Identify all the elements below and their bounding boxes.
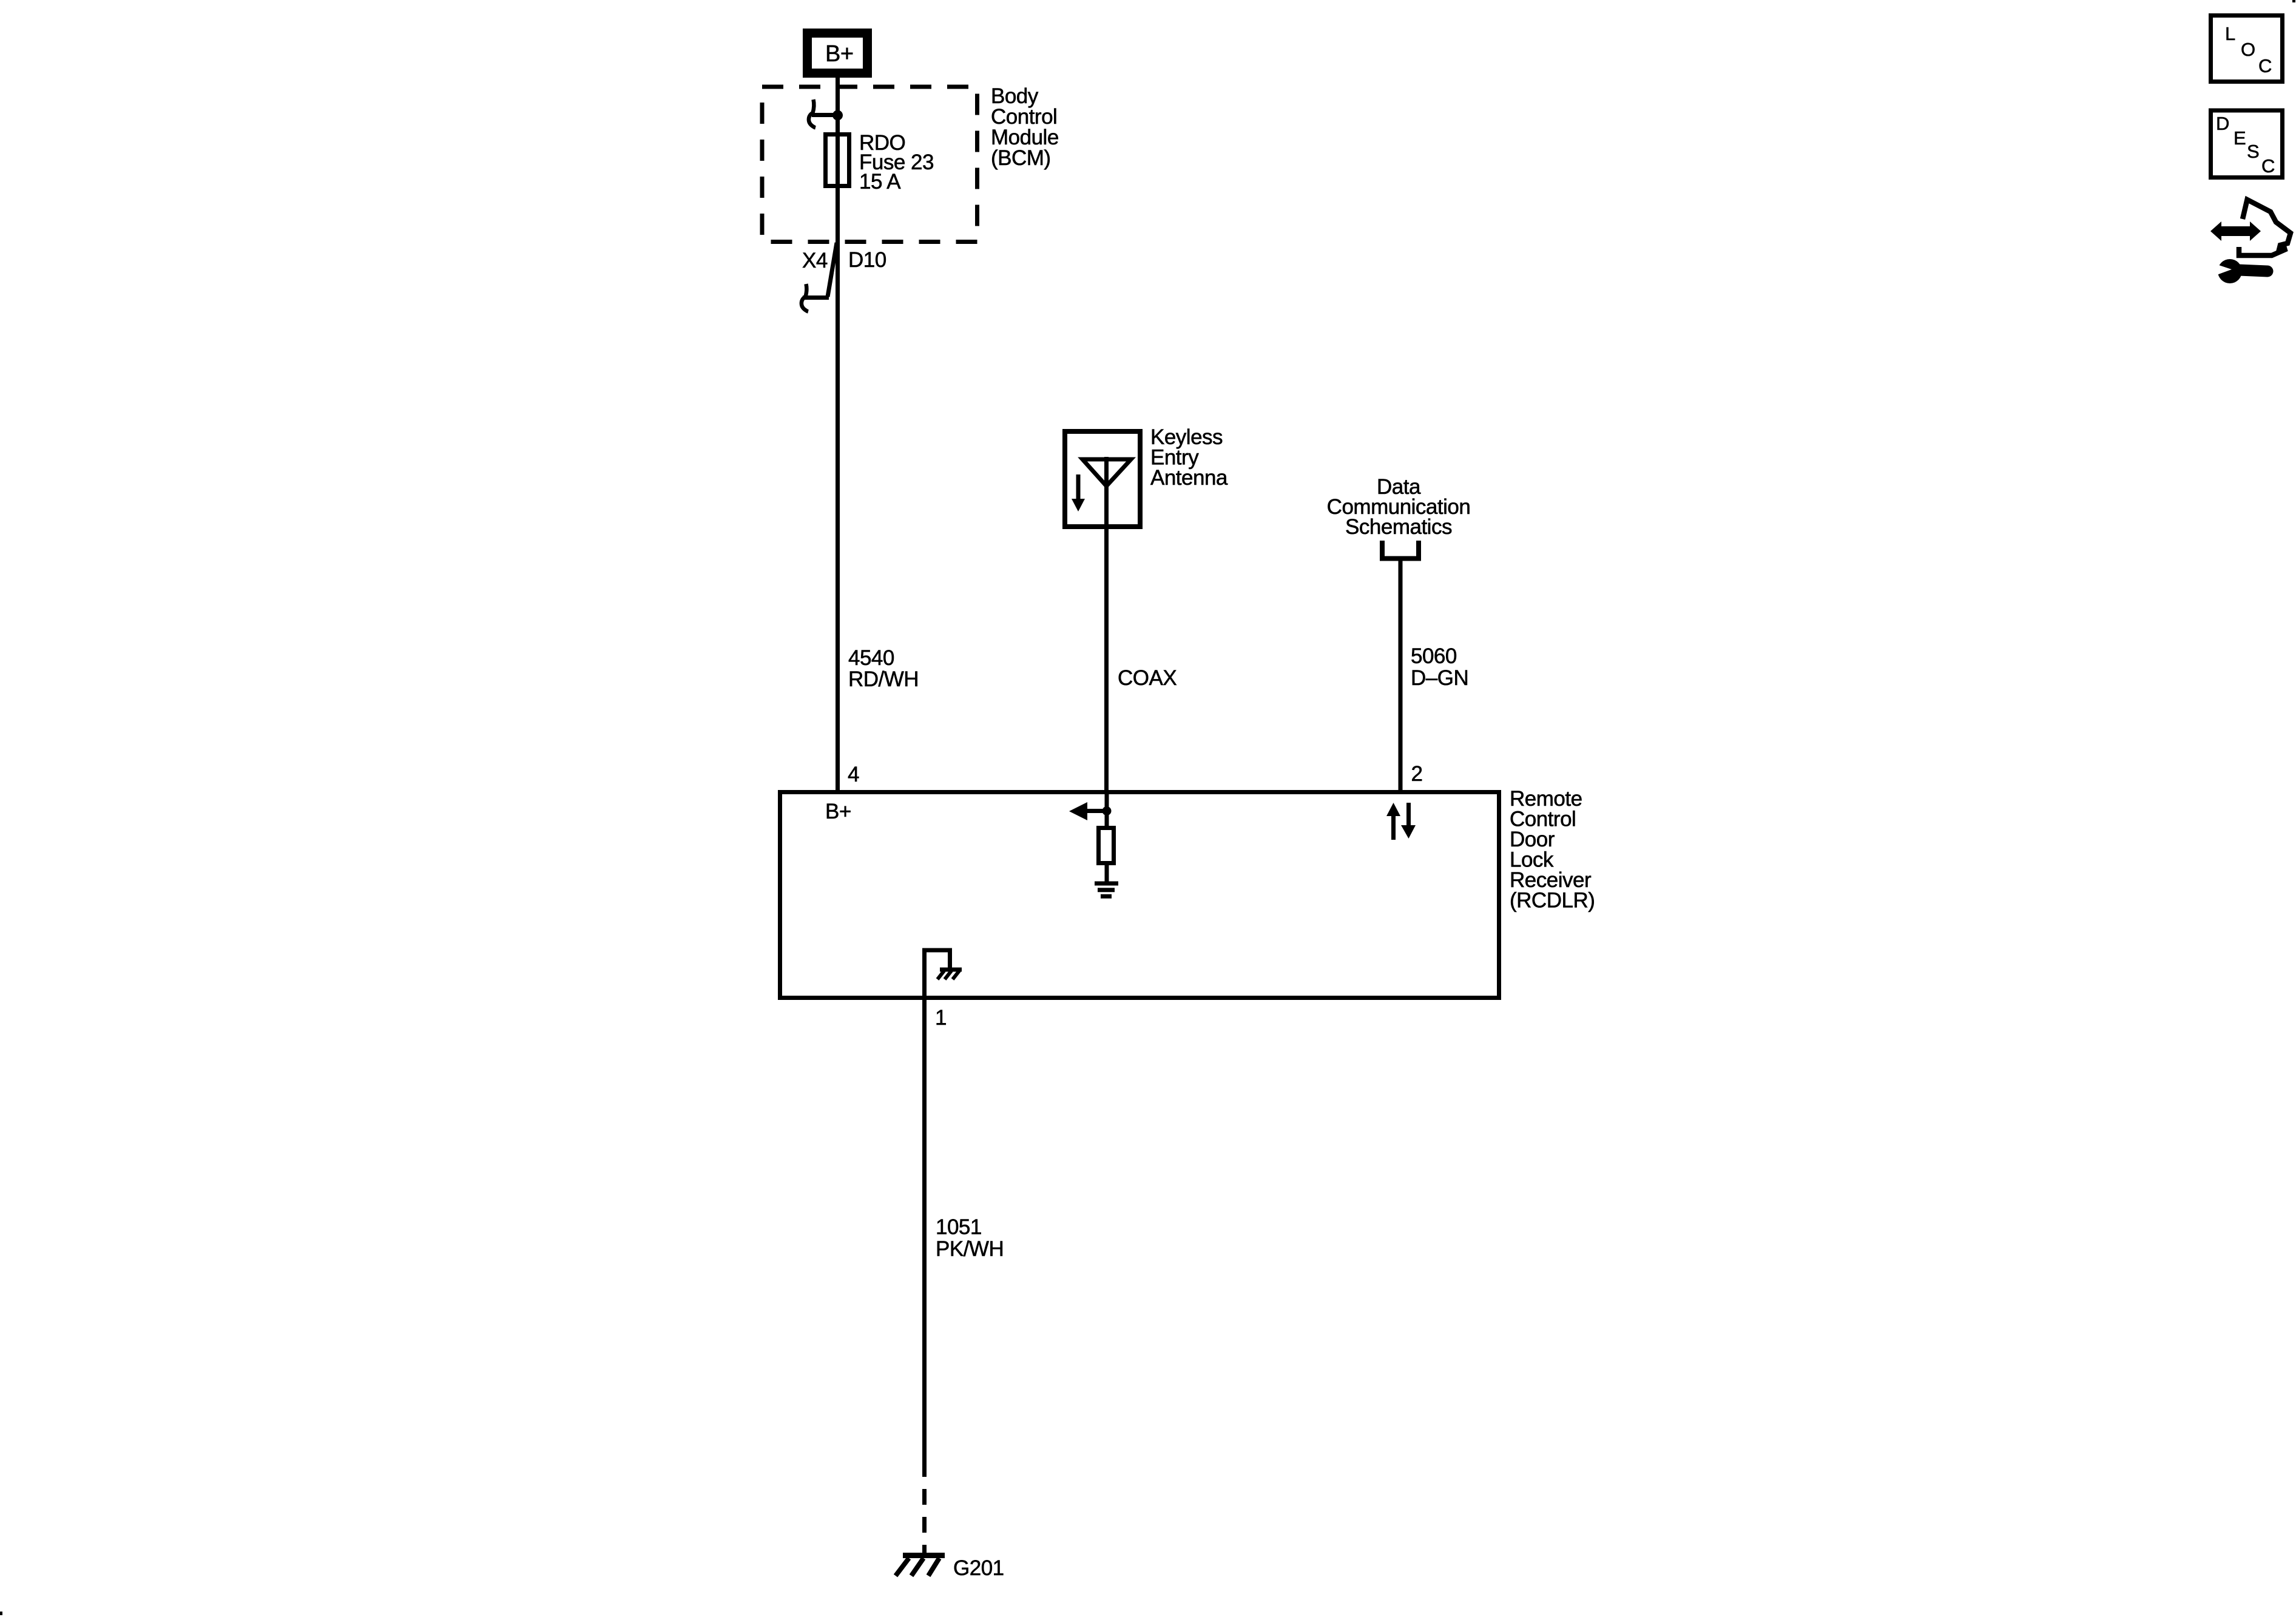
antenna symbol — [1082, 457, 1131, 791]
svg-text:C: C — [2258, 55, 2272, 76]
wire B+ feed down to RCDLR pin 4 — [836, 78, 840, 791]
svg-text:4: 4 — [848, 763, 859, 786]
wire 1051 ground lead (dashed continuation) — [922, 1489, 927, 1555]
stray mark bottom left — [0, 1612, 2, 1615]
svg-text:O: O — [2241, 39, 2255, 60]
svg-text:D: D — [2216, 113, 2229, 134]
wire clip to junction — [812, 113, 838, 117]
wire resistor to ground — [1105, 863, 1109, 883]
svg-text:(BCM): (BCM) — [991, 146, 1051, 170]
power symbol B+ box — [803, 29, 872, 78]
service info icon: wrench — [2212, 259, 2267, 283]
clip symbol at BCM junction — [809, 100, 815, 128]
wire label 1051 PK/WH — [936, 1215, 1004, 1261]
wire label 4540 RD/WH — [848, 646, 919, 691]
wire 1051 ground lead (solid) — [922, 1000, 927, 1477]
svg-text:B+: B+ — [825, 41, 854, 67]
svg-text:Antenna: Antenna — [1150, 466, 1228, 490]
module RCDLR box — [780, 792, 1499, 998]
label Data Communication Schematics — [1327, 475, 1471, 539]
svg-text:PK/WH: PK/WH — [936, 1237, 1004, 1261]
label Remote Control Door Lock Receiver (RCDLR) — [1510, 787, 1595, 913]
svg-text:COAX: COAX — [1118, 666, 1177, 690]
module BCM dashed box — [762, 87, 977, 242]
svg-text:G201: G201 — [953, 1556, 1004, 1580]
resistor termination — [1099, 828, 1114, 863]
svg-text:1051: 1051 — [936, 1215, 982, 1239]
keyless entry antenna box — [1065, 431, 1140, 527]
svg-text:E: E — [2234, 127, 2246, 149]
svg-text:S: S — [2247, 141, 2259, 162]
connector X4 pin D10 pass-through symbol — [803, 243, 837, 298]
stray mark top right — [2292, 0, 2295, 2]
svg-text:5060: 5060 — [1411, 644, 1457, 668]
service info icon: double arrow — [2210, 221, 2261, 241]
clip symbol at connector X4 — [802, 284, 808, 312]
svg-text:L: L — [2225, 23, 2235, 44]
antenna down arrow — [1072, 474, 1085, 511]
node junction dot inside BCM — [832, 110, 843, 121]
svg-text:(RCDLR): (RCDLR) — [1510, 889, 1595, 913]
svg-text:X4: X4 — [802, 249, 828, 272]
coax input termination: wire stub — [1105, 794, 1109, 828]
service info icon: body panel outline — [2239, 200, 2291, 255]
ground G201 chassis symbol — [896, 1556, 945, 1576]
serial data up/down arrows — [1386, 803, 1416, 840]
nav box LOC — [2211, 16, 2283, 82]
svg-text:C: C — [2261, 155, 2275, 177]
fuse RDO Fuse 23 — [826, 135, 849, 186]
svg-text:RD/WH: RD/WH — [848, 667, 919, 691]
svg-text:D10: D10 — [848, 248, 886, 272]
label RDO Fuse 23 15 A — [859, 131, 934, 194]
label Body Control Module (BCM) — [991, 84, 1059, 170]
wire label 5060 D-GN — [1411, 644, 1468, 690]
receiver input arrow (left) — [1069, 802, 1107, 820]
off-page connector bracket to data schematics — [1382, 541, 1419, 559]
svg-text:2: 2 — [1411, 762, 1423, 786]
svg-text:Schematics: Schematics — [1345, 515, 1452, 539]
chassis ground symbol inside RCDLR at pin 1 — [925, 950, 962, 998]
svg-text:D–GN: D–GN — [1411, 666, 1468, 690]
svg-text:1: 1 — [935, 1006, 947, 1030]
svg-text:B+: B+ — [825, 800, 851, 823]
svg-text:4540: 4540 — [848, 646, 894, 670]
nav box DESC — [2211, 110, 2283, 178]
node dot on coax input — [1102, 806, 1112, 815]
wire 5060 serial data — [1399, 561, 1403, 791]
svg-text:15 A: 15 A — [859, 170, 901, 194]
ground (signal) inside RCDLR — [1095, 883, 1118, 896]
label Keyless Entry Antenna — [1150, 425, 1228, 490]
